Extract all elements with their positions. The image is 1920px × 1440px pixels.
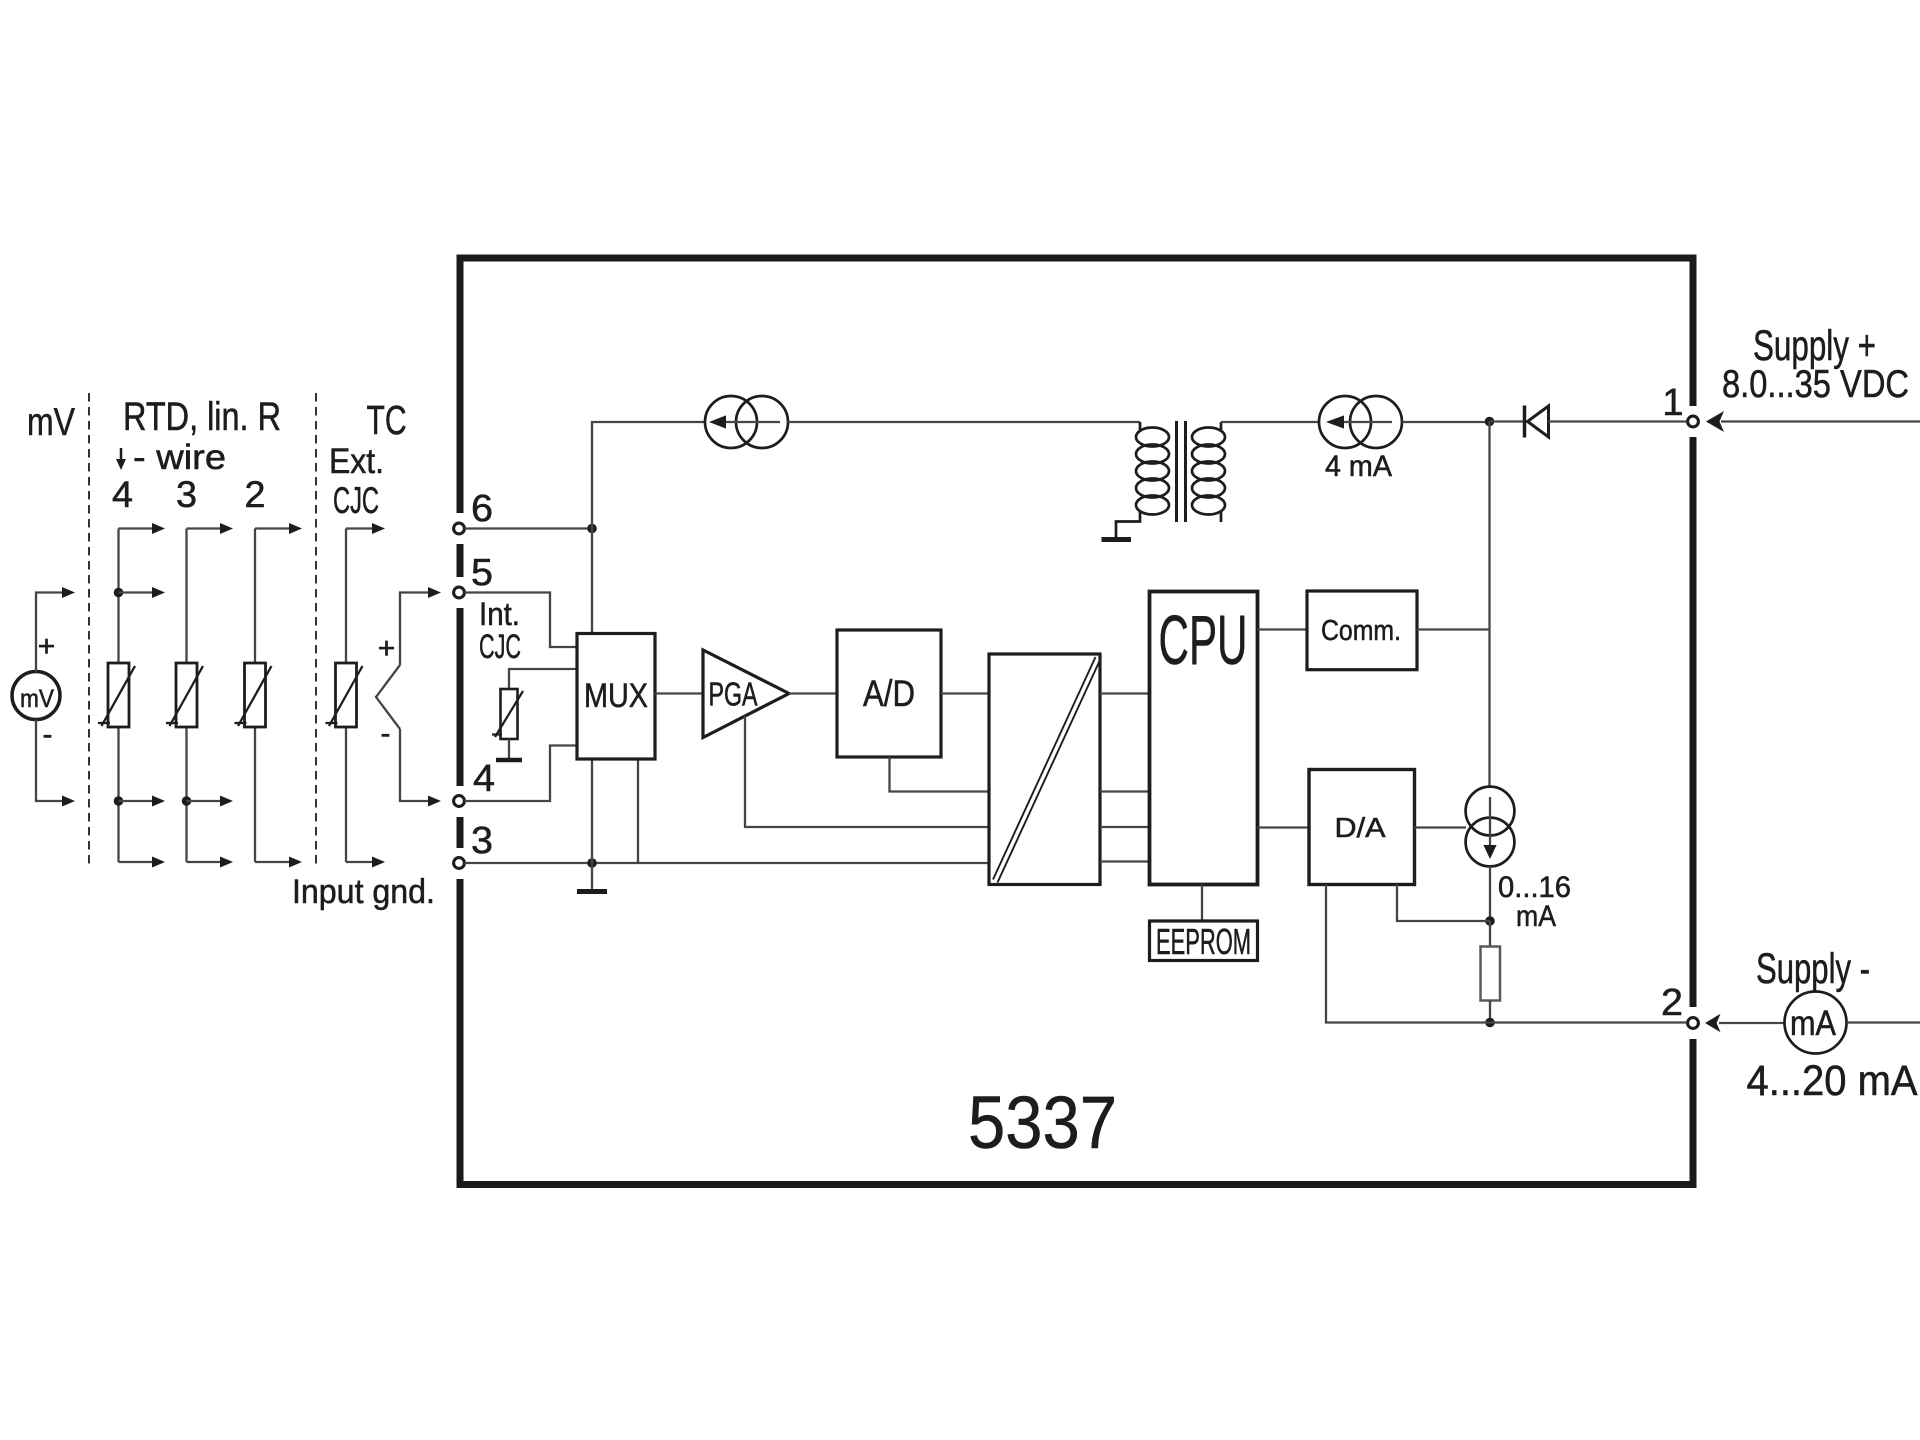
dashed separator RTD | TC [315,393,317,868]
terminal 4 [454,796,465,807]
svg-text:EEPROM: EEPROM [1156,921,1251,962]
svg-text:8.0...35 VDC: 8.0...35 VDC [1722,363,1909,406]
svg-text:CJC: CJC [333,480,379,521]
RTD 4-wire node dot terminal4 level [114,796,124,806]
wire isolation to CPU signal 3 [1100,826,1150,828]
Ext CJC top arrow to terminal 6 level [346,527,372,529]
svg-text:1: 1 [1662,382,1683,424]
isolation barrier U4 [989,654,1100,885]
svg-text:Ext.: Ext. [329,442,384,481]
node D junction dot [1485,916,1495,926]
wire node B to diode D1 [1490,420,1525,422]
wire Comm to supply rail [1417,628,1490,630]
wire isolation to CPU signal 4 [1100,860,1150,862]
wire supply + external [1721,420,1920,422]
wire mV + lead [36,593,62,672]
wire A/D bottom pin to isolation [890,757,990,792]
wire terminal 2 to mA meter [1719,1022,1785,1024]
svg-text:CJC: CJC [479,628,521,666]
device outline box right border (gaps at terminals 1,2) [1690,255,1697,1189]
processor U5 CPU [1150,592,1258,885]
wire D/A right bottom pin to node D [1397,885,1490,922]
svg-text:mA: mA [1516,900,1556,933]
RTD 3-wire top arrow [187,527,221,529]
Int CJC sensor R5 [501,689,518,739]
transformer T1 core [1175,421,1178,522]
node E junction dot [1485,1018,1495,1028]
RTD 4-wire column vertical wire [117,529,119,664]
svg-text:3: 3 [176,474,197,515]
terminal 6 [454,523,465,534]
ground symbol at transformer primary [1102,537,1132,542]
wire CS3 to node D [1489,866,1491,921]
wire CS1 to transformer T1 [788,421,1140,423]
RTD 2-wire top arrow [255,527,289,529]
svg-text:-: - [43,718,53,751]
wire PGA bottom pin to isolation [745,716,989,827]
node A junction dot [587,524,597,534]
terminal 5 [454,587,465,598]
svg-text:RTD, lin. R: RTD, lin. R [123,395,281,439]
svg-text:A/D: A/D [863,673,915,714]
meter M1 mA [1785,992,1847,1054]
memory U7 EEPROM [1150,921,1258,961]
wire CPU to Comm [1258,628,1308,630]
ground symbol input gnd [591,863,593,889]
device outline box left border (gaps at terminals 6,5,4,3) [457,255,464,1189]
terminal 1 [1688,416,1699,427]
device outline box bottom border [457,1181,1697,1188]
Int CJC sensor common bar [508,739,510,758]
communication block U6 Comm. [1307,591,1417,670]
wire D/A to CS3 [1415,826,1467,828]
supply - output arrow [1705,1014,1721,1032]
RTD 2-wire column vertical wire [254,529,256,664]
RTD 4-wire node dot terminal5 level [114,588,124,598]
wire node A up to top supply rail [592,422,705,529]
converter U3 A/D [837,630,941,757]
svg-text:+: + [38,630,56,663]
wire transformer to current source CS2 [1221,421,1319,423]
node B junction dot [1485,417,1495,427]
RTD sensor R2 (3-wire) [176,663,197,727]
amplifier U2 PGA [703,650,789,738]
svg-text:Supply -: Supply - [1756,945,1870,993]
wire isolation to CPU signal 2 [1100,790,1150,792]
wire A/D to isolation [941,692,989,694]
mV source circle [12,672,60,720]
svg-text:MUX: MUX [584,677,648,715]
converter U8 D/A [1309,770,1415,885]
label down-arrow - wire [120,448,123,462]
multiplexer U1 MUX [577,634,655,760]
svg-text:- wire: - wire [133,438,226,477]
svg-text:3: 3 [471,820,493,862]
svg-text:Comm.: Comm. [1321,615,1401,647]
RTD 2-wire bottom arrow input gnd [255,861,289,863]
svg-text:mV: mV [27,401,75,444]
current source CS1 (input side) [705,396,757,448]
svg-text:TC: TC [367,397,407,443]
wire mA meter external [1847,1021,1920,1023]
thermocouple TC junction + lead to terminal 5 [400,593,428,666]
Ext CJC sensor R4 [336,663,357,727]
RTD 3-wire node dot terminal4 level [182,796,192,806]
svg-text:Input gnd.: Input gnd. [292,873,435,911]
wire supply rail node B down to CS3 [1488,422,1490,791]
RTD sensor R3 (2-wire) [245,663,266,727]
RTD 3-wire column vertical wire [185,529,187,664]
wire CPU to EEPROM [1201,885,1203,922]
wire PGA to A/D [789,692,837,694]
svg-text:PGA: PGA [709,676,758,713]
terminal 3 [454,858,465,869]
svg-text:5: 5 [471,552,493,594]
svg-text:D/A: D/A [1335,812,1386,843]
resistor R6 [1489,921,1491,947]
wire D/A left bottom pin to output rail [1326,885,1687,1023]
Ext CJC bottom arrow input gnd [346,861,372,863]
svg-text:+: + [378,632,396,665]
svg-text:mV: mV [20,685,54,713]
wire node A down to MUX top pin [591,529,593,634]
wire mV - lead [36,720,62,802]
wire CS2 to supply node B [1402,421,1490,423]
transformer T1 primary winding [1116,422,1169,537]
thermocouple TC - lead to terminal 4 [400,729,428,801]
svg-text:-: - [381,717,391,750]
current source CS3 0...16 mA [1466,787,1515,836]
wire MUX to PGA [655,692,703,694]
wire terminal 6 to node A [465,527,593,529]
RTD 3-wire bottom arrow input gnd [187,861,221,863]
wire terminal 5 to MUX pin [465,593,578,648]
Ext CJC resistor column vertical wire [345,529,347,664]
wire isolation to CPU signal 1 [1100,692,1150,694]
wire terminal 4 to MUX pin [465,746,578,802]
current source CS2 4 mA [1319,396,1371,448]
dashed separator mV | RTD [88,393,90,868]
RTD sensor R1 (4-wire) [108,663,129,727]
svg-text:2: 2 [1661,982,1683,1024]
transformer T1 secondary winding [1192,422,1225,522]
svg-text:mA: mA [1790,1004,1837,1043]
wire MUX bottom pin 1 to node C [591,759,593,863]
wire Int CJC sensor to MUX pin [509,669,577,689]
device outline box 5337 top border [457,255,1697,262]
node C junction dot on input gnd rail [587,858,597,868]
RTD 4-wire top arrow to terminal 6 level [119,527,153,529]
wire MUX bottom pin 2 to input gnd rail [637,759,639,863]
svg-text:4: 4 [473,758,495,800]
svg-text:5337: 5337 [968,1081,1117,1164]
RTD 4-wire bottom arrow input gnd [119,861,153,863]
svg-text:Int.: Int. [479,596,520,632]
wire CPU to D/A [1258,826,1310,828]
wire diode D1 to terminal 1 [1549,420,1687,422]
svg-text:6: 6 [471,488,493,530]
thermocouple TC chevron junction [376,665,400,729]
svg-text:4...20 mA: 4...20 mA [1747,1057,1918,1105]
svg-text:4: 4 [112,474,133,515]
svg-text:2: 2 [245,474,266,515]
svg-text:CPU: CPU [1159,601,1248,679]
svg-text:4 mA: 4 mA [1325,450,1392,483]
diode D1 [1523,406,1527,438]
supply + input arrow [1706,411,1724,432]
terminal 2 [1688,1018,1699,1029]
wire terminal 3 input gnd rail [465,862,990,864]
